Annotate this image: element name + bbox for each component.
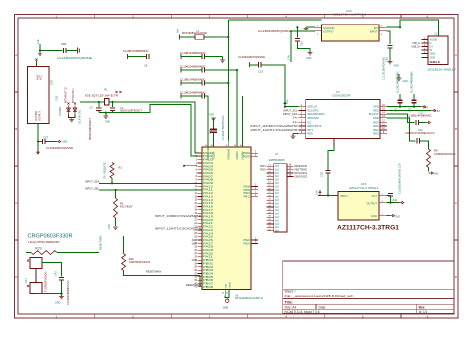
svg-text:SDA/SDI/SDO: SDA/SDI/SDO — [307, 112, 324, 116]
svg-text:46: 46 — [240, 145, 242, 147]
svg-text:VDDIO: VDDIO — [235, 151, 239, 160]
svg-text:CL21B106KPQNNNE: CL21B106KPQNNNE — [57, 56, 92, 60]
svg-text:GND: GND — [430, 51, 436, 55]
svg-text:10118192-0001LF: 10118192-0001LF — [427, 67, 456, 71]
svg-text:CL21B106KPQNNNE: CL21B106KPQNNNE — [382, 56, 385, 80]
svg-text:5.0v: 5.0v — [315, 189, 319, 195]
svg-text:INPUT_SEL: INPUT_SEL — [85, 186, 100, 190]
svg-text:RESETTIEPAD: RESETTIEPAD — [295, 168, 308, 172]
svg-text:INPUT_SDA: INPUT_SDA — [283, 112, 298, 116]
svg-text:INPUT_SCL: INPUT_SCL — [283, 108, 298, 112]
svg-text:PB03: PB03 — [243, 155, 250, 159]
svg-text:SHIELD: SHIELD — [430, 60, 440, 64]
svg-text:P815: P815 — [260, 169, 266, 171]
svg-text:GND: GND — [394, 65, 400, 68]
svg-text:C2: C2 — [90, 106, 94, 110]
svg-text:INPUT_12/INT1/CSGA2502TR: INPUT_12/INT1/CSGA2502TR — [251, 128, 298, 132]
svg-text:J1: J1 — [434, 32, 437, 36]
svg-text:GND: GND — [306, 57, 312, 60]
svg-text:GND: GND — [223, 306, 229, 309]
svg-text:3v3x: 3v3x — [192, 240, 198, 242]
svg-text:CL21B106KB8NNNC: CL21B106KB8NNNC — [66, 280, 70, 305]
svg-text:USB_D+: USB_D+ — [411, 46, 421, 48]
svg-text:AZ1117CH-3.3TRG1: AZ1117CH-3.3TRG1 — [349, 186, 379, 190]
svg-text:AZ1117CH-3.3TRG1: AZ1117CH-3.3TRG1 — [337, 225, 399, 232]
svg-text:INPUT_12/INT1/CSGA2502TR: INPUT_12/INT1/CSGA2502TR — [155, 226, 201, 230]
svg-text:A: A — [15, 53, 17, 57]
svg-text:45: 45 — [226, 292, 228, 294]
svg-text:ATSAMD21G18A-A: ATSAMD21G18A-A — [235, 296, 263, 300]
svg-text:RES: RES — [373, 132, 379, 136]
svg-text:GND: GND — [371, 214, 377, 218]
svg-text:3.4V: 3.4V — [423, 105, 429, 109]
svg-text:CR7: CR7 — [50, 79, 54, 85]
svg-text:Size: A4: Size: A4 — [285, 305, 297, 309]
svg-text:INPUT_SDA: INPUT_SDA — [85, 180, 100, 184]
svg-text:CSGA2502TR: CSGA2502TR — [332, 94, 350, 98]
svg-text:File: _autosaved-Launch#5.8.Ki: File: _autosaved-Launch#5.8.KiCad_sch — [285, 294, 355, 298]
svg-text:CL21B106KPQNNNE: CL21B106KPQNNNE — [238, 55, 265, 59]
svg-text:ADJ/GND: ADJ/GND — [323, 26, 335, 30]
svg-text:C57: C57 — [43, 135, 49, 139]
svg-text:GND: GND — [225, 283, 227, 288]
svg-text:OUTPUT: OUTPUT — [323, 30, 334, 34]
svg-text:INPUT_11/DRDY/CSGA2502TR: INPUT_11/DRDY/CSGA2502TR — [251, 124, 298, 128]
svg-text:KiCad E.D.A. kicad 7.0.6: KiCad E.D.A. kicad 7.0.6 — [285, 310, 320, 314]
svg-text:B: B — [15, 127, 17, 131]
svg-text:VDD: VDD — [373, 105, 379, 109]
svg-text:C8: C8 — [144, 64, 148, 68]
svg-text:C23: C23 — [409, 107, 411, 112]
svg-text:AZ1117CH-1.8TRG1: AZ1117CH-1.8TRG1 — [332, 12, 366, 16]
svg-text:GND: GND — [403, 80, 409, 83]
svg-text:48: 48 — [211, 145, 213, 147]
svg-text:CL10B104KB8NNNC: CL10B104KB8NNNC — [123, 49, 149, 53]
svg-text:B: B — [455, 127, 457, 131]
svg-text:C42: C42 — [54, 271, 58, 276]
svg-text:GND: GND — [373, 116, 379, 120]
svg-text:CL10B104KB8NNNC: CL10B104KB8NNNC — [407, 114, 432, 118]
svg-text:RES: RES — [373, 108, 379, 112]
svg-text:GND: GND — [105, 122, 110, 124]
svg-text:0603X106F500CT: 0603X106F500CT — [120, 109, 142, 113]
svg-text:PB08: PB08 — [243, 184, 250, 188]
svg-text:EN: EN — [374, 26, 378, 30]
svg-text:VDDIN: VDDIN — [229, 282, 231, 289]
svg-text:43: 43 — [234, 145, 236, 147]
svg-text:U17: U17 — [24, 278, 28, 283]
svg-text:3v6: 3v6 — [177, 28, 180, 33]
svg-text:3.4v: 3.4v — [293, 120, 299, 124]
svg-text:R29: R29 — [35, 247, 42, 251]
svg-text:GND: GND — [62, 141, 68, 144]
svg-text:PB02: PB02 — [243, 151, 250, 155]
svg-text:CSR0603FKR102: CSR0603FKR102 — [434, 152, 456, 156]
svg-text:C60: C60 — [61, 42, 67, 46]
svg-text:C21: C21 — [395, 107, 397, 112]
svg-text:GND: GND — [433, 173, 439, 176]
svg-text:VCC: VCC — [40, 75, 43, 80]
svg-text:3v3x: 3v3x — [192, 243, 198, 245]
svg-text:RES: RES — [373, 120, 379, 124]
svg-text:CRGP0603F330R: CRGP0603F330R — [28, 234, 73, 240]
svg-text:GND: GND — [430, 55, 436, 59]
svg-text:INT1: INT1 — [307, 128, 313, 132]
svg-text:Date:: Date: — [319, 305, 327, 309]
svg-text:RES: RES — [373, 128, 379, 132]
svg-text:TL3305AF260QG: TL3305AF260QG — [44, 272, 48, 292]
svg-text:RESET/R42: RESET/R42 — [99, 235, 103, 250]
svg-text:C58: C58 — [320, 172, 324, 177]
svg-text:PLL/FLT: PLL/FLT — [369, 112, 379, 116]
svg-text:1v8: 1v8 — [36, 39, 40, 44]
svg-text:C15: C15 — [208, 129, 212, 134]
svg-text:D-: D- — [430, 41, 433, 45]
svg-text:E3555/36D5: E3555/36D5 — [269, 158, 285, 162]
svg-text:GND: GND — [209, 114, 214, 116]
svg-text:VDD_IO: VDD_IO — [307, 105, 317, 109]
svg-text:Library:MTEC160BNVSN: Library:MTEC160BNVSN — [29, 241, 60, 244]
svg-text:Title:: Title: — [285, 300, 294, 304]
svg-text:RESETMAIN: RESETMAIN — [186, 283, 201, 287]
svg-text:3.8v: 3.8v — [107, 223, 111, 229]
svg-text:PB22: PB22 — [243, 238, 250, 242]
svg-text:CL21B106KPQNNNE: CL21B106KPQNNNE — [258, 29, 292, 33]
svg-text:Id: 1/1: Id: 1/1 — [419, 310, 428, 314]
svg-text:CSR0603FKR102: CSR0603FKR102 — [129, 260, 151, 264]
svg-text:VUSB: VUSB — [430, 37, 437, 41]
svg-text:D+: D+ — [430, 44, 434, 48]
svg-text:44: 44 — [222, 292, 224, 294]
svg-text:EXL-R833V-T01: EXL-R833V-T01 — [104, 161, 107, 179]
svg-text:PB23: PB23 — [243, 241, 250, 245]
svg-text:PB09: PB09 — [243, 188, 250, 192]
svg-text:PB08: PB08 — [203, 285, 214, 289]
svg-text:1.8v: 1.8v — [287, 54, 291, 60]
svg-text:DRDY/INT2: DRDY/INT2 — [307, 124, 322, 128]
svg-text:C0805C474K4RECAUTO: C0805C474K4RECAUTO — [405, 131, 435, 135]
svg-text:47: 47 — [225, 145, 227, 147]
svg-text:P813: P813 — [260, 166, 266, 168]
svg-text:PB11: PB11 — [244, 195, 251, 199]
svg-text:CL21B106KPQNNNE: CL21B106KPQNNNE — [46, 146, 73, 150]
svg-text:A: A — [455, 53, 457, 57]
svg-text:GND: GND — [395, 215, 401, 218]
svg-text:OUTPUT: OUTPUT — [366, 201, 377, 205]
svg-text:3.4v: 3.4v — [293, 116, 299, 120]
svg-text:CL10A475KP5NNNC: CL10A475KP5NNNC — [221, 115, 225, 140]
svg-text:U15: U15 — [361, 182, 367, 186]
svg-text:OUTPUT: OUTPUT — [39, 111, 42, 121]
svg-text:S1.4T8 CR1: S1.4T8 CR1 — [78, 109, 82, 124]
svg-text:3.4V: 3.4V — [435, 109, 441, 113]
svg-text:633-JQT-123-J4A-E-TR: 633-JQT-123-J4A-E-TR — [85, 93, 118, 97]
svg-text:R8: R8 — [434, 149, 438, 153]
svg-text:OUT: OUT — [372, 194, 378, 198]
svg-text:R1: R1 — [119, 166, 123, 170]
svg-text:R1: R1 — [104, 88, 108, 92]
svg-text:3v3x: 3v3x — [192, 260, 198, 262]
svg-text:GND: GND — [55, 302, 61, 305]
svg-text:CL10B104KB8NNNC: CL10B104KB8NNNC — [412, 71, 414, 93]
svg-text:GND/SOURCE: GND/SOURCE — [295, 174, 308, 178]
svg-text:C61: C61 — [299, 41, 303, 46]
svg-text:CR2: CR2 — [55, 95, 59, 101]
svg-text:CL21B106KPQNNNE C19: CL21B106KPQNNNE C19 — [397, 163, 401, 194]
svg-text:3.4v: 3.4v — [286, 99, 289, 104]
svg-text:BAT54XV2T1G: BAT54XV2T1G — [65, 87, 68, 103]
svg-text:INPUT: INPUT — [370, 30, 378, 34]
svg-text:0603X106F500CT: 0603X106F500CT — [88, 118, 92, 140]
svg-text:RES: RES — [373, 124, 379, 128]
svg-text:Rev.: Rev. — [419, 305, 426, 309]
svg-text:ID: ID — [430, 48, 433, 52]
svg-text:BAT/SOURCE: BAT/SOURCE — [295, 171, 308, 175]
svg-text:PB10: PB10 — [243, 191, 250, 195]
svg-text:CS: CS — [307, 120, 311, 124]
svg-text:RES: RES — [307, 132, 313, 136]
svg-text:SCL/SPC: SCL/SPC — [307, 108, 319, 112]
svg-text:VDDANA: VDDANA — [226, 149, 230, 160]
svg-text:C19: C19 — [258, 70, 264, 74]
svg-text:U?: U? — [275, 152, 279, 156]
svg-text:USB_D-: USB_D- — [412, 43, 421, 45]
svg-text:SCM2B: SCM2B — [58, 107, 62, 116]
svg-text:INPUT: INPUT — [340, 194, 348, 198]
svg-text:3.4v: 3.4v — [393, 199, 398, 202]
svg-text:RESETMAIN: RESETMAIN — [295, 164, 308, 168]
svg-text:BZT52C3V6-7: BZT52C3V6-7 — [73, 88, 75, 103]
svg-text:INPUT_13/DRDY/CSGA2502TR: INPUT_13/DRDY/CSGA2502TR — [155, 214, 201, 218]
svg-text:EXL-F833V: EXL-F833V — [120, 205, 133, 208]
svg-text:RESETMAIN: RESETMAIN — [146, 269, 161, 273]
svg-text:SDG/SA0: SDG/SA0 — [307, 116, 319, 120]
